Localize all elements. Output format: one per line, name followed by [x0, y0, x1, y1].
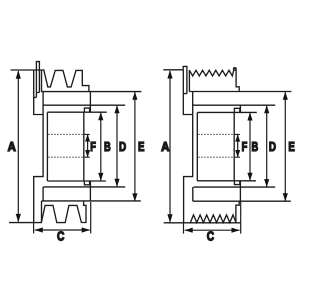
- pulley L hub channel inner line: [34, 70, 40, 97]
- dim C left: extension lines: [34, 202, 91, 233]
- wire top extension line A (right figure): [163, 69, 183, 71]
- dim E left: arrow: [134, 92, 136, 201]
- pulley R top tab: [183, 66, 187, 69]
- svg-text:A: A: [8, 139, 17, 154]
- svg-text:D: D: [269, 141, 276, 154]
- pulley R hub left face top: [183, 70, 192, 115]
- pulley L keyway flag bottom: [84, 181, 89, 185]
- svg-text:B: B: [104, 141, 111, 155]
- svg-text:E: E: [288, 141, 295, 155]
- pulley L bottom face and groove teeth: [9, 202, 86, 223]
- pulley L bottom band bottom line / E extension bottom: [42, 200, 141, 202]
- pulley L band left edge and mid hub left edge: [34, 92, 43, 223]
- pulley R bottom band bottom line / E extension bottom: [193, 200, 291, 202]
- pulley R keyway flag top: [234, 108, 239, 112]
- pulley R top rim inner line / E extension top: [189, 91, 291, 93]
- pulley L keyway flag top: [84, 108, 89, 112]
- pulley L bore extension stubs: [84, 134, 90, 157]
- pulley R bore extension stubs: [234, 134, 240, 157]
- svg-text:B: B: [252, 141, 259, 155]
- pulley L top tab: [36, 62, 39, 70]
- pulley R rib end flange curl: [233, 68, 236, 71]
- pulley R front hub rectangle: [197, 112, 234, 180]
- dim F left: arrow: [87, 135, 89, 157]
- dim C right: arrowheads: [185, 228, 240, 233]
- svg-text:C: C: [207, 231, 214, 244]
- dim B right: arrow: [249, 113, 251, 180]
- pulley R hub channel inner line: [183, 70, 187, 94]
- pulley R rib end step: [236, 68, 239, 92]
- pulley R top band lower line / D extension top: [193, 104, 276, 106]
- dim A right: arrowheads: [167, 70, 172, 223]
- svg-text:C: C: [57, 231, 64, 244]
- dim A left: arrowheads: [16, 70, 21, 222]
- pulley R rect bottom line / B extension bottom: [197, 180, 256, 182]
- dim A right: arrow line: [169, 71, 171, 222]
- svg-text:A: A: [161, 139, 170, 154]
- pulley L band right edge verticals: [89, 92, 91, 202]
- pulley R top ribs zigzag: [189, 68, 236, 76]
- pulley R rib section left wall: [188, 70, 190, 92]
- pulley R band right edge verticals: [239, 105, 241, 201]
- pulley R rect top line / B extension top: [197, 111, 256, 113]
- pulley L bore hidden line lower: [48, 156, 84, 158]
- svg-text:F: F: [90, 141, 96, 155]
- pulley L top rim inner line / E extension top: [41, 91, 141, 93]
- pulley R bottom outer face line: [164, 222, 241, 224]
- wire top extension line A (left figure): [11, 69, 45, 71]
- pulley L rect bottom line / B extension bottom: [47, 180, 106, 182]
- dim C right: extension lines: [184, 201, 241, 233]
- pulley R bottom rib end step: [236, 201, 239, 223]
- pulley L top groove profile: [42, 70, 89, 92]
- pulley L hub left face top: [34, 70, 43, 115]
- pulley R mid hub left edge: [184, 92, 193, 223]
- svg-text:D: D: [119, 141, 126, 154]
- dim D right: arrow: [266, 106, 268, 187]
- svg-text:F: F: [242, 141, 248, 155]
- svg-text:E: E: [138, 141, 145, 155]
- pulley L bore hidden line upper: [48, 133, 84, 135]
- dim F right: arrow: [237, 135, 239, 157]
- pulley R bore hidden line upper: [198, 133, 234, 135]
- dim C left: arrow line: [35, 229, 90, 231]
- pulley L top band lower line / D extension top: [43, 104, 126, 106]
- pulley R bottom band left edge: [192, 187, 194, 201]
- pulley R bottom ribs zigzag: [190, 215, 236, 223]
- pulley L bottom band left edge: [42, 187, 44, 201]
- dim A left: arrow line: [17, 71, 19, 221]
- pulley R keyway flag bottom: [234, 181, 239, 185]
- pulley R bottom band top line / D extension bottom: [193, 186, 275, 188]
- dim C left: arrowheads: [35, 227, 90, 232]
- pulley L rect top line / B extension top: [47, 111, 106, 113]
- pulley L bottom band top line / D extension bottom: [43, 186, 125, 188]
- dim B left: arrow: [100, 113, 102, 181]
- dim E right: arrow: [284, 92, 286, 201]
- dim C right: arrow line: [185, 229, 240, 231]
- pulley R bore hidden line lower: [198, 156, 234, 158]
- pulley L bottom rim left face: [41, 201, 43, 223]
- pulley L front hub rectangle: [47, 112, 83, 181]
- dim D left: arrow: [116, 106, 118, 187]
